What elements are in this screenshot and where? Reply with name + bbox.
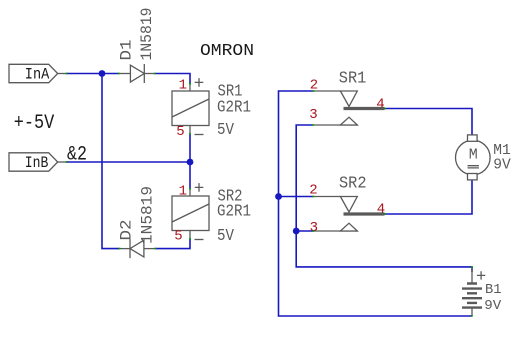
diode D1 pins [119, 73, 131, 75]
svg-text:B1: B1 [485, 282, 502, 298]
wire SR1 pin5 down to SR2 pin1 [189, 134, 191, 190]
wire motor bottom to SR2 pin4 [385, 179, 473, 214]
svg-text:&2: &2 [67, 143, 87, 166]
svg-text:4: 4 [376, 96, 384, 112]
relay coil SR1 diagonal [172, 99, 209, 117]
svg-text:3: 3 [310, 220, 318, 236]
relay contact SR2 pin3 line [313, 230, 358, 232]
relay contact SR1 pin3 line [313, 124, 358, 126]
motor M1 bottom terminal [468, 174, 478, 180]
relay contact SR2 NO triangle [340, 223, 357, 231]
battery B1 bottom pin [471, 308, 473, 316]
diode D2 triangle [130, 240, 144, 257]
wire SR1 contact pin3 rail to battery plus [296, 125, 472, 267]
battery B1 top pin [471, 268, 473, 284]
svg-text:1: 1 [179, 183, 187, 199]
wire SR2 contact pin2 tap [279, 196, 314, 198]
svg-text:5V: 5V [217, 121, 235, 140]
svg-text:+-5V: +-5V [14, 112, 55, 135]
wire D1 to SR1 coil corner [155, 74, 190, 85]
relay contact SR2 common bar [344, 212, 385, 215]
svg-text:InA: InA [25, 65, 50, 83]
wire InA net horizontal [66, 73, 119, 75]
relay contact SR1 NC triangle [340, 91, 357, 107]
svg-text:G2R1: G2R1 [217, 203, 251, 222]
svg-text:SR1: SR1 [339, 70, 367, 89]
motor equals mark [468, 166, 479, 168]
pin end marks green [66, 74, 474, 317]
junction node InA/left rail [99, 70, 106, 77]
svg-text:1N5819: 1N5819 [138, 8, 156, 61]
svg-text:InB: InB [25, 154, 49, 172]
svg-text:5: 5 [174, 228, 182, 244]
wire left rail vertical [102, 74, 120, 249]
relay contact SR1 pin2 line [313, 90, 340, 92]
svg-text:OMRON: OMRON [200, 42, 254, 61]
relay coil SR1 box [172, 91, 209, 126]
wire battery top stub [471, 267, 473, 272]
pin plus SR2 coil [195, 183, 204, 192]
svg-text:4: 4 [377, 202, 385, 218]
svg-text:1N5819: 1N5819 [138, 186, 156, 244]
svg-text:G2R1: G2R1 [217, 99, 251, 118]
diode D1 cathode bar [143, 64, 145, 83]
battery plus sign [477, 271, 485, 279]
wire SR2 pin5 to D2 [155, 239, 190, 249]
svg-text:D1: D1 [118, 40, 136, 61]
svg-text:9V: 9V [484, 298, 502, 314]
diode D2 pins [120, 248, 131, 250]
connector InA flag [9, 64, 58, 82]
diode D2 cathode bar [129, 239, 131, 258]
pin minus SR2 coil [195, 239, 204, 241]
pin minus SR1 coil [195, 134, 204, 136]
junction node InB/SR2 coil [187, 159, 194, 166]
junction node SR2 pin2 [275, 193, 282, 200]
relay contact SR2 NC triangle [340, 197, 357, 213]
junction node SR2 pin3 [293, 228, 300, 235]
svg-text:3: 3 [309, 107, 317, 123]
svg-text:SR2: SR2 [339, 174, 367, 193]
wire InB net horizontal [66, 161, 190, 163]
relay contact SR1 common bar [344, 107, 385, 110]
diode D1 triangle [130, 65, 144, 82]
relay coil SR2 box [172, 196, 209, 231]
svg-text:5: 5 [176, 124, 184, 140]
wire SR1 contact pin2 and bottom rail [279, 91, 473, 316]
battery B1 plates [462, 284, 482, 308]
motor M1 top terminal [468, 135, 478, 141]
svg-text:1: 1 [179, 77, 187, 93]
connector InA pin [58, 73, 67, 75]
connector InB pin [58, 161, 67, 163]
relay contact SR2 pin2 line [313, 196, 340, 198]
svg-text:M: M [469, 147, 478, 164]
relay contact SR1 NO triangle [340, 117, 357, 125]
relay coil SR1 pins [189, 84, 191, 92]
wire SR2 contact pin3 tap [296, 230, 313, 232]
relay coil SR2 pins [189, 189, 191, 197]
pin plus SR1 coil [195, 78, 204, 87]
svg-text:9V: 9V [493, 156, 511, 173]
relay coil SR2 diagonal [172, 204, 209, 222]
motor M1 circle [456, 140, 491, 175]
svg-text:D2: D2 [118, 220, 136, 241]
connector InB flag [9, 153, 58, 171]
wire SR1 pin4 to motor top [385, 109, 473, 136]
svg-text:5V: 5V [217, 227, 235, 246]
